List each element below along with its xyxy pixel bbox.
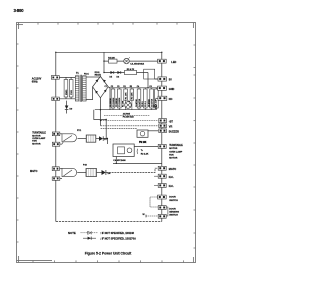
wire secondary top [86,76,100,78]
wire top bus [56,51,162,53]
svg-text:MOTOR: MOTOR [32,143,41,145]
svg-text:CA-9FC2498: CA-9FC2498 [113,159,126,162]
svg-text:VR: VR [169,125,173,128]
svg-text:C6: C6 [149,86,151,88]
svg-text:Tr: Tr [141,149,143,152]
label values above rail [105,85,152,88]
capacitor R2 [129,88,134,110]
svg-text:DOOR: DOOR [169,208,176,210]
svg-text:R2: R2 [130,86,132,88]
diode D7 [99,136,108,141]
label AC120V 60Hz [32,77,42,83]
svg-text:CA-0594/046A: CA-0594/046A [130,63,144,66]
wire Q1 top feed [107,144,113,147]
svg-text:CN-A 13P: CN-A 13P [155,99,158,109]
junction dots [55,52,162,164]
note legend [68,231,136,240]
diode D5 [110,71,114,79]
svg-text:R2 2.2K: R2 2.2K [141,154,149,156]
connector pin VR [159,124,173,128]
wire plus rail [109,87,157,89]
wire filter drop [109,88,111,110]
connector pin MGTO [158,166,176,171]
svg-text:OVEN LAMP: OVEN LAMP [169,150,183,153]
wire bottom bus [56,221,162,223]
wire mid link 2 [100,110,102,126]
svg-text:SENSING: SENSING [169,211,179,213]
capacitor C5 [142,88,147,110]
svg-text:R1: R1 [123,86,125,88]
wire AC live [59,76,75,78]
transistor Tr bracket [137,149,149,156]
svg-text:TURNTABLE: TURNTABLE [32,132,46,135]
svg-text:SWITCH: SWITCH [169,215,178,217]
connector pin LED [158,59,177,64]
diode D9 [65,101,73,114]
svg-text:F101: F101 [84,74,90,76]
driver block Q1 [113,144,134,162]
svg-text:ZNR1: ZNR1 [66,89,68,95]
wire door loop left [150,197,158,207]
svg-text:FAN: FAN [169,154,174,157]
connector pin NC3 [154,184,174,189]
svg-text:C3 100/16: C3 100/16 [116,98,118,107]
svg-text:5V: 5V [169,79,172,82]
svg-text:C4 47/16: C4 47/16 [135,99,138,107]
regulator IC1 [123,100,135,118]
svg-text:C101: C101 [71,89,73,95]
diode D6 [117,71,121,79]
capacitor R1 [123,88,128,110]
svg-text:C3 100/16: C3 100/16 [119,97,121,107]
wire bridge minus drop [99,98,101,110]
frame tick marks [17,23,196,263]
svg-text:Figure 5-2 Power Unit Circuit: Figure 5-2 Power Unit Circuit [85,252,132,256]
capacitor C6 [148,88,154,110]
connector CN-B pin 1 [52,132,60,136]
svg-text:R1 10K: R1 10K [123,100,125,107]
wire LED feed vertical [103,52,105,72]
wire LED line [104,60,157,62]
connector pin door sense 2 [158,214,166,218]
wire MGTO line [113,163,162,165]
connector pin NC2 [154,174,174,179]
connector CN-B pin 2 [52,142,60,146]
capacitor C2 [110,88,115,110]
wire D7 to Q1 [103,139,107,145]
svg-text:MOTOR: MOTOR [169,148,178,150]
label TURNTABLE right [169,144,183,159]
relay RY1 coil [86,135,96,142]
wire diode line drop [147,73,149,88]
connector pin GND [158,86,175,91]
connector pin door sense 1 [158,206,166,210]
wire diode line [104,72,148,74]
svg-text:R1 10K: R1 10K [125,92,127,99]
wire bridge plus [108,87,110,88]
connector pin 5V [155,77,172,82]
svg-text:MGTO: MGTO [30,170,38,173]
label TURNTABLE left [32,132,46,146]
connector CN-C pin 1 [52,167,59,171]
svg-text:MOTOR: MOTOR [169,157,178,159]
svg-text:C3: C3 [117,86,119,88]
connector CN-C pin 2 [52,177,60,180]
svg-text:SWITCH: SWITCH [169,200,178,202]
svg-text:N.C.: N.C. [169,185,174,188]
svg-text:N.C.: N.C. [169,176,174,179]
wire Q1 to turntable pin [134,145,158,147]
connector CN-A pin 1 [51,76,59,80]
svg-text:BUZZER: BUZZER [169,130,179,133]
svg-text:C2 100/16: C2 100/16 [110,98,112,107]
relay RY2 coil [86,169,97,177]
wire mid link 1 [94,110,106,139]
transformer T1 [75,73,89,102]
varistor ZNR1 [64,77,68,98]
svg-text:GND: GND [169,88,175,91]
svg-text:C5 0.1: C5 0.1 [145,100,147,107]
svg-text:C4 47/16: C4 47/16 [138,98,141,107]
wire RY2 out [106,168,158,172]
svg-text:DOOR: DOOR [169,197,176,199]
relay RY1 contact [60,134,77,144]
relay RY2 contact [60,168,77,178]
wire 5V stub [155,78,159,80]
LED D10 [124,57,130,64]
svg-text:C6 47/16: C6 47/16 [148,99,151,107]
svg-text:R2 10K: R2 10K [132,92,134,99]
wire AC neutral [59,98,75,100]
svg-text:C2 100/16: C2 100/16 [113,97,115,107]
svg-text:NOTE: NOTE [68,231,76,235]
wire BT line [101,120,159,122]
svg-text:PS-MN 52X: PS-MN 52X [123,116,135,118]
wire NC stub [155,97,158,99]
buzzer BZ1 [137,130,148,144]
svg-text:FAN: FAN [32,140,37,143]
wire VR line [101,125,159,127]
svg-text:LED: LED [171,61,176,64]
svg-text:NC: NC [169,98,173,101]
wire secondary bottom [86,87,93,100]
wire sense line [104,115,150,117]
wire coil to D4 [97,172,102,174]
svg-text:: IF NOT SPECIFIED, 1N4148: : IF NOT SPECIFIED, 1N4148 [100,232,134,235]
label DOOR SENSING SWITCH [169,208,179,216]
wire Q1 down [115,157,117,164]
capacitor C101 [69,77,73,98]
svg-text:OVEN LAMP: OVEN LAMP [32,137,46,140]
resistor R4 [108,56,117,63]
wire RY1 contact to coil [78,138,87,140]
label DOOR SWITCH [169,197,178,202]
svg-text:C5 0.1: C5 0.1 [142,101,144,107]
wire RY2 contact to coil [77,172,86,174]
wire left bus [55,52,57,221]
connector pin BUZZER [159,129,179,134]
svg-text:60Hz: 60Hz [32,80,39,83]
svg-text:P8 10K: P8 10K [140,142,147,144]
capacitor C4 [135,88,141,110]
wire ground rail [95,109,157,111]
svg-text:3-890: 3-890 [14,8,25,13]
svg-text:RB151: RB151 [95,75,102,77]
svg-text:4A7805: 4A7805 [123,113,131,116]
border frame [17,23,196,263]
wire coil to D7 [96,138,99,140]
connector pin BT [159,119,174,124]
wire buzzer stub [148,130,158,132]
svg-text:: IF NOT SPECIFIED, 1SS270A: : IF NOT SPECIFIED, 1SS270A [100,237,136,240]
connector pin turntable [158,144,166,148]
connector pin door switch [158,195,167,199]
capacitor C7 [153,88,158,110]
connector CN-A pin 2 [52,97,60,101]
wire buzzer link [101,128,137,130]
svg-text:-BT: -BT [169,120,174,123]
svg-text:C2: C2 [111,86,113,88]
resistor R5 [125,68,137,75]
svg-text:C4: C4 [137,85,139,88]
wire door loop right [166,207,168,216]
capacitor C3 [116,88,121,110]
svg-text:MOTOR: MOTOR [32,135,41,137]
wire 5V loop [144,69,155,79]
wire right bus [161,52,163,221]
wire door sense stub [143,214,159,218]
diode D4 [102,170,112,175]
bridge rectifier D101 [93,72,109,98]
svg-text:MGTO: MGTO [169,168,177,171]
svg-text:TURNTABLE: TURNTABLE [169,144,183,147]
connector pin NC1 [158,96,173,101]
svg-text:C1: C1 [105,86,107,88]
